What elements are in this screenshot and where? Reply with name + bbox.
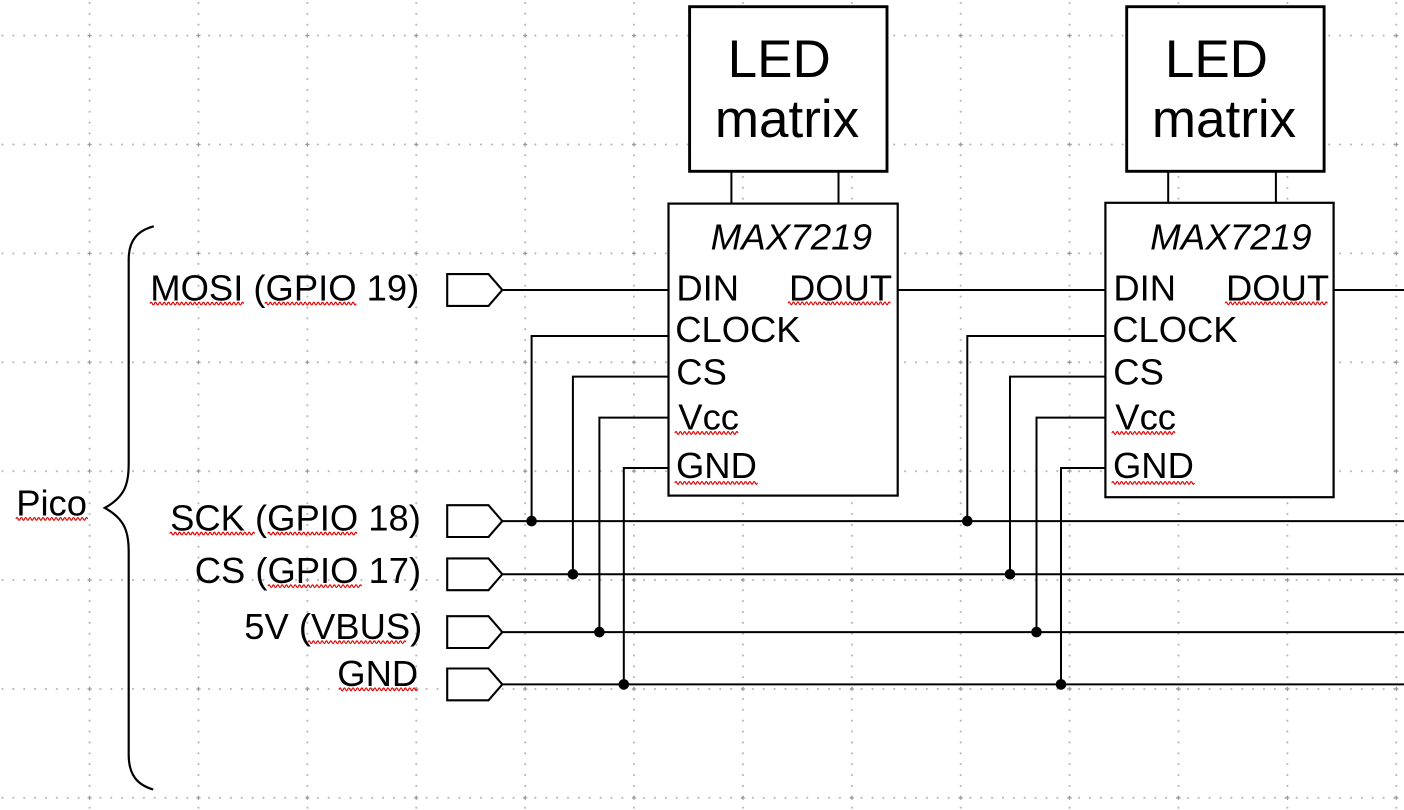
svg-text:matrix: matrix bbox=[1152, 90, 1296, 149]
svg-text:CLOCK: CLOCK bbox=[1112, 309, 1237, 350]
junction GND-U2 bbox=[1056, 679, 1067, 690]
svg-text:DIN: DIN bbox=[1113, 267, 1176, 308]
MAX7219 U2 box bbox=[1105, 203, 1333, 497]
wire SCK bus bbox=[502, 520, 1404, 522]
svg-text:matrix: matrix bbox=[715, 90, 859, 149]
node tag 5V bbox=[447, 616, 502, 648]
squiggle under DOUT U2 bbox=[1225, 302, 1327, 305]
brace Pico group bbox=[105, 226, 154, 789]
node tag MOSI bbox=[447, 274, 502, 306]
squiggle under Vcc U2 bbox=[1112, 432, 1175, 435]
junction 5V-U1 bbox=[594, 627, 605, 638]
wire U2 Vcc drop bbox=[1037, 418, 1106, 632]
wire LED1 to U1 stub right bbox=[838, 173, 840, 204]
wire CS bus bbox=[502, 573, 1404, 575]
wire GND bus bbox=[502, 683, 1404, 685]
squiggle under Pico bbox=[16, 518, 88, 521]
squiggle under MOSI bbox=[150, 302, 244, 305]
svg-text:CS: CS bbox=[1113, 352, 1164, 393]
squiggle under Vcc U1 bbox=[675, 432, 738, 435]
wire LED2 to U2 stub left bbox=[1167, 173, 1169, 204]
junction 5V-U2 bbox=[1031, 627, 1042, 638]
wire LED2 to U2 stub right bbox=[1275, 173, 1277, 204]
svg-text:Vcc: Vcc bbox=[1115, 397, 1176, 438]
node tag CS bbox=[447, 558, 502, 590]
squiggle under GND U2 bbox=[1112, 482, 1195, 485]
wire U1 DOUT to U2 DIN bbox=[898, 289, 1106, 291]
svg-text:MAX7219: MAX7219 bbox=[1150, 217, 1312, 258]
wire U2 CS drop bbox=[1010, 377, 1105, 575]
squiggle under GND U1 bbox=[675, 482, 758, 485]
squiggle under (GPIO 18 bbox=[268, 532, 357, 535]
squiggle under GND label bbox=[339, 688, 417, 691]
wire U1 CLOCK drop bbox=[532, 336, 669, 521]
wire U2 DOUT to right edge bbox=[1334, 289, 1404, 291]
junction SCK-U2 bbox=[962, 516, 973, 527]
LED matrix box 2 bbox=[1127, 7, 1324, 172]
squiggle under (VBUS bbox=[308, 641, 406, 644]
wire U1 CS drop bbox=[573, 377, 669, 575]
node tag GND bbox=[447, 669, 502, 701]
wire U2 GND drop bbox=[1061, 468, 1105, 684]
svg-text:CS: CS bbox=[676, 352, 727, 393]
LED matrix box 1 bbox=[690, 7, 887, 172]
squiggle under DOUT U1 bbox=[788, 302, 890, 305]
wire U1 GND drop bbox=[624, 468, 669, 684]
svg-text:MAX7219: MAX7219 bbox=[711, 217, 873, 258]
junction SCK-U1 bbox=[526, 516, 537, 527]
wire 5V bus bbox=[502, 631, 1404, 633]
svg-text:LED: LED bbox=[1165, 30, 1268, 89]
svg-text:DIN: DIN bbox=[676, 267, 739, 308]
svg-text:GND: GND bbox=[1113, 445, 1194, 486]
squiggle under SCK bbox=[170, 532, 255, 535]
svg-text:GND: GND bbox=[676, 445, 757, 486]
junction CS-U2 bbox=[1005, 569, 1016, 580]
node tag SCK bbox=[447, 505, 502, 537]
MAX7219 U1 box bbox=[669, 204, 898, 496]
squiggle under (GPIO 17 bbox=[268, 585, 362, 588]
svg-text:LED: LED bbox=[728, 30, 831, 89]
svg-text:CLOCK: CLOCK bbox=[675, 309, 800, 350]
wire LED1 to U1 stub left bbox=[730, 173, 732, 204]
junction GND-U1 bbox=[619, 679, 630, 690]
squiggle under (GPIO 19 bbox=[265, 302, 356, 305]
wire U2 CLOCK drop bbox=[967, 336, 1105, 521]
wire U1 Vcc drop bbox=[599, 418, 668, 632]
junction CS-U1 bbox=[568, 569, 579, 580]
svg-text:Vcc: Vcc bbox=[678, 397, 739, 438]
wire MOSI to U1 DIN bbox=[502, 289, 668, 291]
